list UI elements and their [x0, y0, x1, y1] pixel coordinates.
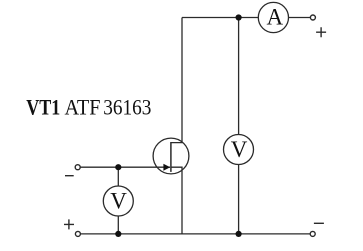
svg-text:ATF: ATF	[65, 95, 101, 120]
polarity minus at gate terminal	[65, 175, 74, 177]
junction dot top rail	[236, 14, 242, 20]
transistor VT1 gate arrow	[163, 164, 170, 171]
terminal bottom left (open circle)	[75, 231, 80, 236]
wire middle vertical (top rail to voltmeter V2 to bottom rail)	[238, 18, 240, 234]
svg-text:V: V	[110, 188, 127, 213]
terminal top right (open circle)	[310, 15, 315, 20]
ammeter A body	[258, 2, 288, 32]
svg-text:V: V	[231, 137, 248, 162]
terminal bottom right (open circle)	[310, 231, 315, 236]
junction dot bottom V1	[115, 231, 121, 237]
voltmeter V2 body	[224, 135, 254, 165]
svg-text:36163: 36163	[103, 95, 151, 120]
polarity plus at top right terminal	[316, 27, 326, 37]
wire drain lead	[171, 18, 182, 143]
wire gate lead (left terminal to gate)	[80, 166, 170, 168]
wire source lead	[171, 167, 182, 234]
polarity plus at bottom left terminal	[64, 219, 74, 229]
junction dot gate/V1	[115, 164, 121, 170]
svg-text:A: A	[266, 5, 283, 30]
transistor VT1 body circle	[153, 138, 189, 174]
wire bottom rail	[80, 233, 310, 235]
polarity minus at bottom right terminal	[314, 222, 324, 224]
voltmeter V1 body	[103, 186, 133, 216]
transistor VT1 channel bar	[170, 142, 172, 172]
svg-text:VT1: VT1	[26, 95, 60, 120]
junction dot bottom V2	[236, 231, 242, 237]
terminal gate (open circle)	[75, 165, 80, 170]
wire top rail (drain to ammeter to + terminal)	[182, 17, 310, 19]
wire voltmeter V1 branch vertical	[117, 167, 119, 234]
